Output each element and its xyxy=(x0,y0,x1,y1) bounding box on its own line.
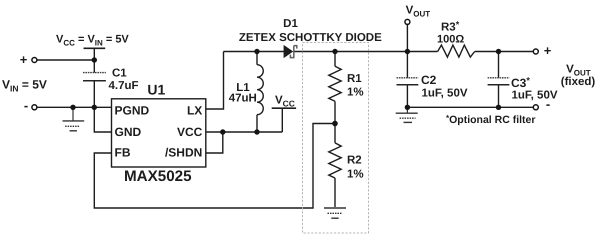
svg-text:(fixed): (fixed) xyxy=(561,76,596,88)
svg-text:1%: 1% xyxy=(347,87,364,99)
svg-text:R2: R2 xyxy=(347,154,362,166)
svg-text:1uF, 50V: 1uF, 50V xyxy=(422,87,468,99)
svg-text:MAX5025: MAX5025 xyxy=(124,168,192,185)
svg-text:VCC: VCC xyxy=(177,125,203,139)
svg-text:47uH: 47uH xyxy=(229,93,257,105)
svg-text:VIN = 5V: VIN = 5V xyxy=(2,78,47,94)
svg-text:*Optional RC filter: *Optional RC filter xyxy=(446,113,535,126)
svg-text:FB: FB xyxy=(115,146,131,160)
svg-text:-: - xyxy=(546,97,550,112)
svg-text:-: - xyxy=(24,98,28,113)
svg-text:+: + xyxy=(544,43,552,58)
svg-text:PGND: PGND xyxy=(115,104,150,118)
svg-text:C1: C1 xyxy=(112,68,127,80)
svg-text:1%: 1% xyxy=(347,168,364,180)
svg-text:R1: R1 xyxy=(347,73,362,85)
svg-text:1uF, 50V: 1uF, 50V xyxy=(512,90,558,102)
svg-text:LX: LX xyxy=(187,104,202,118)
svg-text:ZETEX SCHOTTKY DIODE: ZETEX SCHOTTKY DIODE xyxy=(239,32,382,44)
svg-text:100Ω: 100Ω xyxy=(437,33,464,45)
svg-text:GND: GND xyxy=(115,125,142,139)
svg-text:+: + xyxy=(20,52,28,67)
svg-text:C2: C2 xyxy=(421,73,437,87)
svg-text:U1: U1 xyxy=(147,81,165,97)
svg-text:D1: D1 xyxy=(283,18,298,30)
svg-text:/SHDN: /SHDN xyxy=(165,146,202,160)
svg-text:4.7uF: 4.7uF xyxy=(109,80,139,92)
